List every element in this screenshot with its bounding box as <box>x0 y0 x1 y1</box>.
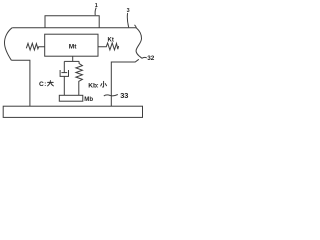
svg-text:Mb: Mb <box>84 96 93 103</box>
svg-text:3: 3 <box>127 8 130 14</box>
svg-text::: : <box>44 82 46 88</box>
svg-text:C: C <box>39 81 44 88</box>
svg-text:32: 32 <box>147 55 155 62</box>
svg-text:1: 1 <box>95 3 98 9</box>
svg-text:33: 33 <box>120 91 128 100</box>
svg-text::: : <box>97 83 99 89</box>
svg-text:Mt: Mt <box>69 44 77 51</box>
svg-text:Kt: Kt <box>108 37 114 43</box>
